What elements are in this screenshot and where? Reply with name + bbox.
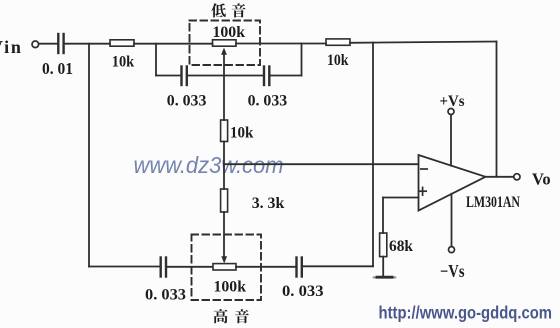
resistor R1 10k xyxy=(110,40,134,46)
capacitor C3 0.033 (bass right) xyxy=(263,67,265,86)
wire R4 down to treble wiper xyxy=(223,212,225,260)
svg-text:Vo: Vo xyxy=(532,170,551,189)
svg-text:10k: 10k xyxy=(327,52,349,69)
output wire xyxy=(486,176,514,178)
svg-text:3. 3k: 3. 3k xyxy=(252,195,285,212)
svg-text:+Vs: +Vs xyxy=(440,93,465,110)
resistor R3 10k (vertical) xyxy=(221,120,228,142)
svg-text:100k: 100k xyxy=(214,279,247,296)
wire R1 to bass pot xyxy=(134,43,213,45)
wire C1 to R1 xyxy=(65,43,110,45)
capacitor C5 0.033 (treble right) xyxy=(295,258,297,277)
wire R5 to ground xyxy=(382,257,384,277)
svg-text:0. 033: 0. 033 xyxy=(167,93,207,110)
wire noninverting input xyxy=(383,197,419,199)
capacitor C4 0.033 (treble left) xyxy=(159,258,161,277)
svg-text:Vin: Vin xyxy=(0,37,23,57)
wire treble cap to pot xyxy=(167,266,213,268)
label bass 低音 xyxy=(211,3,226,17)
treble pot wiper arrow xyxy=(221,256,227,263)
potentiometer RP1 100k (bass) body xyxy=(213,40,237,46)
wire bass cap rail middle xyxy=(188,75,263,77)
op-amp plus marker xyxy=(419,190,426,192)
wire bass left drop xyxy=(155,44,157,76)
capacitor C1 0.01 xyxy=(57,34,59,53)
wire input to C1 xyxy=(39,43,57,45)
svg-text:10k: 10k xyxy=(112,53,134,70)
wire right rail down to output node xyxy=(496,42,498,177)
svg-text:68k: 68k xyxy=(389,238,413,255)
svg-text:−Vs: −Vs xyxy=(440,261,465,281)
dashed box treble pot xyxy=(192,235,262,301)
wire treble pot to right cap xyxy=(236,266,295,268)
wire plus node down to R5 xyxy=(382,198,384,234)
op-amp U1 LM301AN triangle xyxy=(419,155,486,211)
svg-text:0. 01: 0. 01 xyxy=(42,59,73,78)
wire left rail input node down xyxy=(88,44,90,267)
wire J5 to op-amp inverting input xyxy=(224,163,419,165)
svg-text:LM301AN: LM301AN xyxy=(466,194,520,211)
resistor R4 3.3k (vertical) xyxy=(221,189,228,212)
svg-text:100k: 100k xyxy=(213,24,246,41)
svg-text:0. 033: 0. 033 xyxy=(145,287,186,304)
wire right treble rail up to J4 xyxy=(372,43,374,267)
output terminal Vo xyxy=(514,174,520,180)
dashed box bass pot xyxy=(190,21,261,66)
wire treble bottom left xyxy=(89,266,159,268)
label treble 高音 xyxy=(214,309,228,323)
wire R2 to top-right corner xyxy=(350,42,497,43)
wire bass pot to J3 xyxy=(236,43,326,45)
capacitor C2 0.033 (bass left) xyxy=(180,67,182,86)
svg-text:0. 033: 0. 033 xyxy=(248,93,288,110)
bass pot wiper arrow xyxy=(223,51,225,120)
wire bass cap rail left xyxy=(156,75,180,77)
-Vs terminal xyxy=(451,194,453,247)
svg-text:http://www.go-gddq.com: http://www.go-gddq.com xyxy=(379,302,553,322)
op-amp minus marker xyxy=(421,168,427,170)
+Vs terminal xyxy=(448,109,454,115)
svg-text:0. 033: 0. 033 xyxy=(282,283,324,300)
resistor R5 68k xyxy=(380,233,387,257)
wire bass cap rail right xyxy=(271,75,302,77)
ground symbol xyxy=(377,276,392,279)
resistor R2 10k xyxy=(326,39,350,45)
wire treble bottom right xyxy=(303,265,373,267)
wire R3 to J5 xyxy=(223,142,225,190)
input terminal Vin xyxy=(32,41,39,48)
wire bass right rise xyxy=(301,44,303,76)
potentiometer RP2 100k (treble) body xyxy=(213,264,236,270)
svg-text:10k: 10k xyxy=(230,124,253,141)
